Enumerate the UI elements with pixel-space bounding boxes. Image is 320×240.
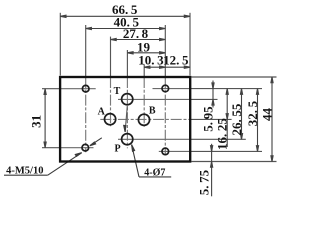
- svg-text:10. 3: 10. 3: [138, 52, 164, 67]
- svg-text:B: B: [149, 105, 156, 116]
- svg-text:44: 44: [259, 108, 274, 122]
- svg-text:26. 55: 26. 55: [229, 103, 244, 135]
- svg-text:P: P: [114, 143, 120, 154]
- svg-text:32. 5: 32. 5: [245, 100, 260, 126]
- svg-text:5. 75: 5. 75: [197, 169, 212, 195]
- svg-text:4-Ø7: 4-Ø7: [144, 168, 165, 179]
- svg-text:4-M5/10: 4-M5/10: [6, 166, 43, 177]
- svg-text:31: 31: [28, 115, 43, 128]
- svg-text:A: A: [98, 107, 106, 118]
- svg-text:12. 5: 12. 5: [163, 52, 189, 67]
- svg-text:T: T: [114, 86, 121, 97]
- svg-text:16. 25: 16. 25: [215, 118, 230, 150]
- svg-text:5. 95: 5. 95: [200, 106, 215, 132]
